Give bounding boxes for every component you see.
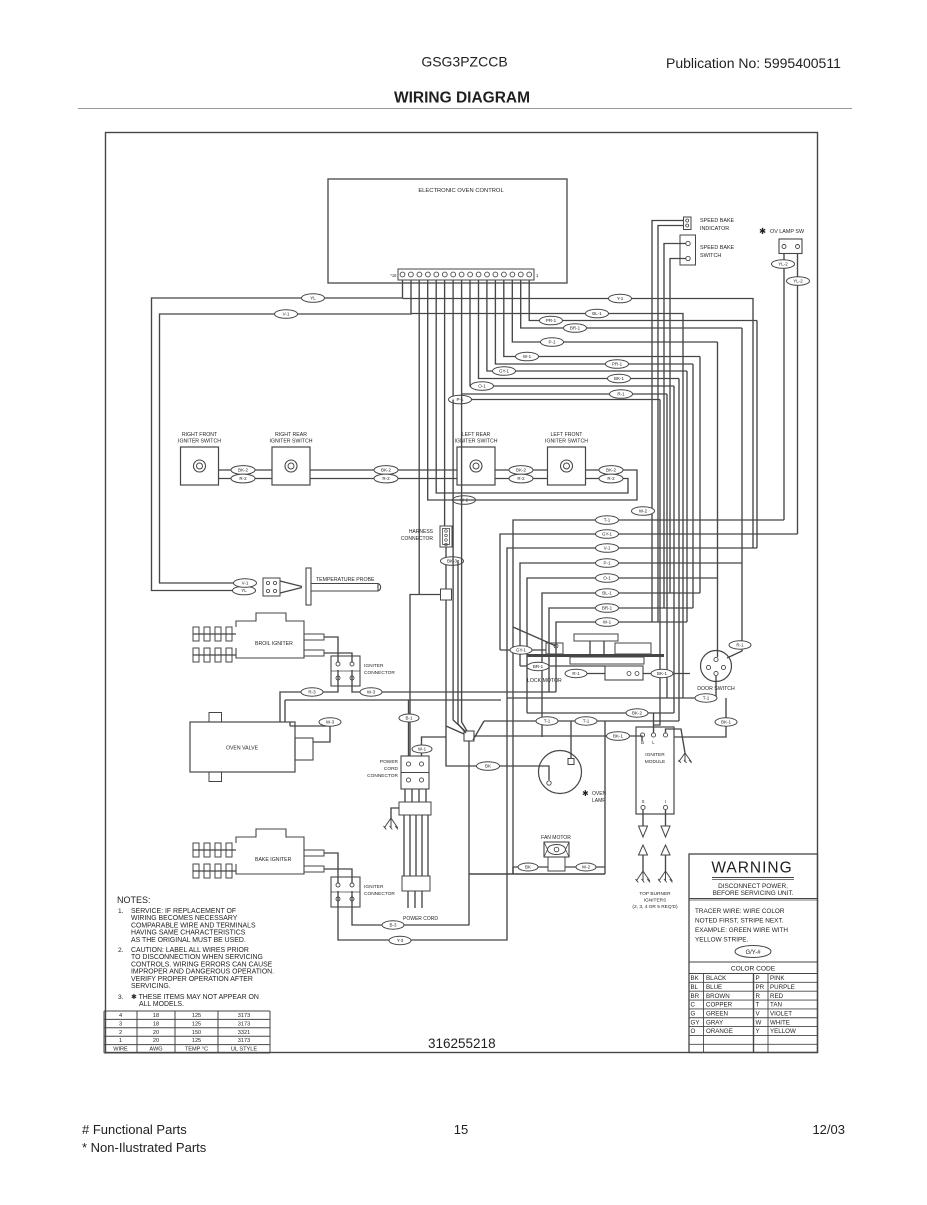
svg-text:SPEED BAKE: SPEED BAKE (700, 218, 735, 224)
wire star junction to igniter module (474, 736, 642, 741)
wire label T-1 (596, 516, 619, 525)
svg-text:GY-1: GY-1 (499, 369, 510, 374)
svg-text:TAN: TAN (770, 1002, 782, 1009)
broil igniter (193, 613, 324, 662)
svg-text:POWER: POWER (380, 759, 399, 765)
svg-text:YL: YL (241, 588, 247, 593)
svg-text:YL-2: YL-2 (778, 262, 788, 267)
wire oven valve top (284, 700, 286, 722)
wire label BR-1 (527, 662, 549, 670)
wire junction to power cord branch (410, 595, 441, 757)
wire label O-1 (471, 382, 494, 391)
svg-text:✱: ✱ (759, 226, 766, 236)
svg-text:SWITCH: SWITCH (700, 253, 721, 259)
wire label R-3 (301, 688, 323, 696)
wire ladder row W-1 y=622 (556, 622, 687, 692)
svg-text:BROWN: BROWN (706, 993, 730, 1000)
wire label BL-1 (596, 589, 619, 598)
wire label Y-3 (389, 936, 411, 944)
svg-text:W-2: W-2 (639, 509, 648, 514)
svg-text:GY-1: GY-1 (516, 648, 527, 653)
svg-text:BK: BK (485, 764, 491, 769)
left front igniter switch (545, 432, 588, 485)
svg-text:125: 125 (192, 1038, 201, 1044)
wire T-1 row at lamp (484, 720, 571, 722)
svg-text:CONNECTOR: CONNECTOR (364, 891, 395, 897)
tracer example oval (735, 946, 771, 958)
oval BK-1 below door switch (674, 698, 726, 737)
svg-text:W-1: W-1 (523, 354, 532, 359)
svg-text:V-1: V-1 (242, 581, 249, 586)
wire label P-1 (596, 559, 619, 568)
wire label Y-1 (609, 294, 632, 303)
svg-text:CONTROLS. WIRING ERRORS C: CONTROLS. WIRING ERRORS CAN CAUSE (131, 961, 273, 968)
wire EOC terminal drop row y=399.5 (453, 280, 660, 400)
wire OV lamp switch left to ladder (783, 254, 785, 521)
svg-text:BLACK: BLACK (706, 975, 727, 982)
svg-text:BR-1: BR-1 (533, 664, 544, 669)
wire from speed bake switch pin 2 (670, 259, 686, 594)
svg-text:VIOLET: VIOLET (770, 1011, 792, 1018)
wire label T-1 (575, 717, 597, 725)
svg-text:G: G (691, 1011, 696, 1018)
svg-text:LEFT REAR: LEFT REAR (462, 432, 491, 438)
wire ladder row GY-1 y=534 (500, 534, 798, 650)
ground at igniter module (679, 753, 692, 763)
svg-text:P-1: P-1 (548, 340, 556, 345)
junction connector square (441, 589, 452, 600)
svg-text:W-3: W-3 (367, 690, 376, 695)
wire label W-1 (516, 352, 539, 361)
svg-text:BK: BK (525, 865, 531, 870)
wire label BL-1 (586, 309, 609, 318)
star junction node (464, 731, 474, 741)
spark gap S (636, 810, 651, 883)
wire label PR-1 (606, 360, 629, 369)
svg-text:INDICATOR: INDICATOR (700, 226, 729, 232)
lock motor body (605, 666, 643, 680)
svg-text:BK-2: BK-2 (238, 468, 249, 473)
svg-text:B-3: B-3 (389, 923, 397, 928)
wire label YL (302, 294, 325, 303)
svg-text:P-1: P-1 (456, 397, 464, 402)
svg-text:316255218: 316255218 (428, 1036, 496, 1051)
svg-text:IGNITER SWITCH: IGNITER SWITCH (545, 439, 588, 445)
door switch (701, 651, 732, 682)
wire EOC terminal drop row y=378.5 (479, 280, 680, 379)
svg-text:R-2: R-2 (239, 476, 247, 481)
svg-text:V-1: V-1 (283, 312, 290, 317)
wire label V-1 (275, 310, 298, 319)
wire label W-2 (576, 863, 596, 871)
wire label BK (518, 863, 538, 871)
svg-text:IGNITER: IGNITER (364, 663, 384, 669)
svg-text:HAVING SAME CHARACTERISTICS: HAVING SAME CHARACTERISTICS (131, 930, 246, 937)
svg-text:BROIL IGNITER: BROIL IGNITER (255, 641, 293, 647)
wire ladder row BR-1 y=608 (549, 608, 693, 692)
wire label BK-1 (715, 718, 737, 726)
svg-text:LEFT FRONT: LEFT FRONT (551, 432, 584, 438)
svg-text:4: 4 (119, 1013, 122, 1019)
wire branch junction to star (446, 726, 464, 734)
svg-text:BAKE IGNITER: BAKE IGNITER (255, 857, 292, 863)
oven valve (190, 722, 295, 772)
svg-text:TEMPERATURE PROBE: TEMPERATURE PROBE (316, 577, 375, 583)
svg-text:2: 2 (119, 1030, 122, 1036)
svg-text:T-1: T-1 (544, 719, 551, 724)
wire label YL (233, 586, 256, 595)
wire ladder row V-1 y=548 (507, 548, 757, 874)
wire label B-3 (382, 921, 404, 929)
svg-text:12/03: 12/03 (812, 1122, 845, 1137)
ground at power cord (391, 808, 399, 818)
svg-text:PR: PR (756, 984, 765, 991)
svg-text:IMPROPER AND DANGEROUS OPER: IMPROPER AND DANGEROUS OPERATION. (131, 969, 274, 976)
svg-text:R: R (756, 993, 761, 1000)
svg-text:BK-1: BK-1 (721, 720, 732, 725)
svg-text:GSG3PZCCB: GSG3PZCCB (421, 54, 507, 70)
wire label BK-1 (608, 374, 631, 383)
EOC terminal strip (398, 269, 534, 280)
wire label T-1 (536, 717, 558, 725)
svg-text:IGNITER: IGNITER (645, 752, 665, 758)
svg-text:WIRE: WIRE (113, 1047, 128, 1053)
svg-text:R-1: R-1 (736, 643, 744, 648)
svg-text:CAUTION: LABEL ALL WIRES: CAUTION: LABEL ALL WIRES PRIOR (131, 947, 249, 954)
wire junction down to oven lamp row (446, 600, 549, 780)
wire module right pin to ground (666, 729, 686, 753)
svg-text:SERVICING.: SERVICING. (131, 983, 171, 990)
svg-text:BL-1: BL-1 (592, 311, 602, 316)
svg-text:BK-1: BK-1 (614, 376, 625, 381)
wire label V-1 (596, 544, 619, 553)
lock motor base bar (527, 654, 664, 657)
svg-text:WIRING DIAGRAM: WIRING DIAGRAM (394, 90, 530, 107)
warning box (689, 854, 818, 1053)
wire label V-1 (234, 579, 257, 588)
svg-text:Publication No: 5995400511: Publication No: 5995400511 (666, 55, 841, 71)
wire label W-1 (412, 745, 432, 753)
title underline (78, 108, 852, 110)
svg-text:* Non-Ilustrated Parts: * Non-Ilustrated Parts (82, 1140, 207, 1155)
wire label R-2 (599, 474, 623, 483)
main schematic border frame (106, 133, 818, 1053)
wire label YL-2 (772, 260, 795, 269)
wire label R-2 (231, 474, 255, 483)
wire ladder row T-1 y=520 (513, 520, 784, 874)
wire label BK-2 (599, 466, 623, 475)
wire EOC terminal drop row y=342.0 (512, 280, 717, 342)
svg-text:PINK: PINK (770, 975, 785, 982)
wire EOC pin15 to temperature probe (160, 280, 412, 583)
wire label R-2 (374, 474, 398, 483)
wire label GY-1 (493, 367, 516, 376)
svg-text:DISCONNECT POWER,: DISCONNECT POWER, (718, 883, 788, 890)
bottom loop wires (338, 874, 507, 940)
svg-text:C: C (691, 1002, 696, 1009)
svg-text:GY-1: GY-1 (602, 532, 613, 537)
svg-text:TOP BURNER: TOP BURNER (639, 891, 671, 897)
wire ladder row BL-1 y=593 (542, 593, 700, 737)
svg-text:RED: RED (770, 993, 784, 1000)
svg-text:TEMP °C: TEMP °C (185, 1047, 208, 1053)
svg-text:HARNESS: HARNESS (409, 529, 434, 535)
svg-text:BL-1: BL-1 (602, 591, 612, 596)
svg-text:COLOR CODE: COLOR CODE (731, 966, 776, 973)
svg-text:IGNITERS: IGNITERS (644, 898, 667, 904)
svg-text:PR-1: PR-1 (612, 362, 623, 367)
svg-text:1.: 1. (118, 908, 124, 915)
svg-text:T-1: T-1 (604, 518, 611, 523)
svg-text:W-1: W-1 (418, 747, 427, 752)
svg-text:YELLOW: YELLOW (770, 1028, 796, 1035)
svg-text:20: 20 (153, 1038, 159, 1044)
svg-text:G/Y-#: G/Y-# (745, 950, 761, 956)
svg-text:15: 15 (454, 1122, 468, 1137)
svg-text:R-1: R-1 (617, 392, 625, 397)
wire label BK-2 (626, 709, 648, 717)
svg-text:BR-1: BR-1 (602, 606, 613, 611)
svg-text:OV LAMP SW: OV LAMP SW (770, 229, 805, 235)
svg-text:1: 1 (119, 1038, 122, 1044)
wire door switch R-1 (727, 563, 742, 658)
wire label R-2 (509, 474, 533, 483)
svg-text:O-1: O-1 (603, 576, 611, 581)
color code table (689, 961, 818, 963)
wire label GY-1 (596, 530, 619, 539)
svg-text:CONNECTOR: CONNECTOR (401, 536, 434, 542)
svg-text:BK-3: BK-3 (447, 559, 458, 564)
svg-text:150: 150 (192, 1030, 201, 1036)
svg-text:O: O (691, 1028, 696, 1035)
svg-text:20: 20 (153, 1030, 159, 1036)
wire label BK-2 (509, 466, 533, 475)
wire igniter switch chain R-2 (219, 478, 273, 480)
svg-text:W-3: W-3 (326, 720, 335, 725)
wire star to oven lamp T-1 row (473, 721, 484, 740)
wire label B-1 (399, 714, 419, 722)
wire label BK-1 (651, 669, 673, 677)
temperature probe body (280, 581, 302, 587)
svg-text:GRAY: GRAY (706, 1019, 723, 1026)
speed bake indicator (684, 217, 692, 230)
wire label BK-2 (231, 466, 255, 475)
svg-text:MODULE: MODULE (645, 759, 666, 765)
lock motor wires (500, 649, 546, 651)
wire igniter switch chain BK-2 (219, 469, 273, 471)
harness connector (440, 526, 452, 547)
right rear igniter switch (270, 432, 313, 485)
wires into power cord connector (408, 722, 410, 756)
svg-text:R-2: R-2 (517, 476, 525, 481)
wire EOC terminal drop row y=328.0 (521, 280, 742, 328)
fan motor platform (470, 873, 606, 875)
wire EOC drop to junction (418, 280, 420, 594)
svg-text:PURPLE: PURPLE (770, 984, 795, 991)
svg-text:125: 125 (192, 1021, 201, 1027)
wire gauge table (104, 1011, 270, 1053)
wire door switch T-1 bottom (507, 676, 716, 698)
svg-text:T: T (756, 1002, 760, 1009)
svg-text:*16: *16 (390, 273, 397, 278)
svg-text:AS THE ORIGINAL MUST BE U: AS THE ORIGINAL MUST BE USED. (131, 937, 246, 944)
svg-text:3173: 3173 (238, 1038, 250, 1044)
wire label W-2 (453, 496, 476, 505)
svg-text:SPEED BAKE: SPEED BAKE (700, 245, 735, 251)
igniter module (636, 727, 674, 814)
svg-text:BLUE: BLUE (706, 984, 722, 991)
wire label R-1 (729, 641, 751, 649)
svg-text:3321: 3321 (238, 1030, 250, 1036)
fan motor wires (513, 866, 548, 868)
power cord wires (403, 815, 405, 876)
wire label PR-1 (540, 316, 563, 325)
svg-text:NOTES:: NOTES: (117, 895, 151, 905)
svg-text:125: 125 (192, 1013, 201, 1019)
left rear igniter switch (455, 432, 498, 485)
igniter connector (broil) (331, 656, 395, 686)
wires fanning into star junction (453, 400, 465, 732)
svg-text:BR-1: BR-1 (570, 326, 581, 331)
wire EOC terminal drop row y=320.5 (529, 280, 757, 321)
svg-text:GREEN: GREEN (706, 1011, 728, 1018)
svg-text:V-1: V-1 (604, 546, 611, 551)
wire EOC terminal drop row y=394.0 (462, 280, 667, 394)
svg-text:PR-1: PR-1 (546, 318, 557, 323)
wire from speed bake indicator pin 2 (658, 226, 684, 623)
speed bake switch (680, 235, 696, 265)
svg-text:R-1: R-1 (572, 671, 580, 676)
svg-text:SERVICE: IF REPLACEMENT O: SERVICE: IF REPLACEMENT OF (131, 908, 236, 915)
svg-text:R-2: R-2 (382, 476, 390, 481)
lock motor lever (513, 627, 556, 646)
wire label O-1 (596, 574, 619, 583)
svg-text:I: I (665, 799, 666, 804)
right front igniter switch (178, 432, 221, 485)
wire EOC terminal drop row y=371.0 (487, 280, 687, 371)
wires from broil connector down (280, 670, 338, 722)
wire from speed bake switch pin 1 (664, 244, 686, 609)
svg-text:3.: 3. (118, 994, 124, 1001)
wire star junction down to igniter connector loop (468, 741, 470, 925)
svg-text:BK-2: BK-2 (516, 468, 527, 473)
wire label R-1 (565, 669, 587, 677)
svg-text:P-1: P-1 (603, 561, 611, 566)
svg-text:(2, 3, 4 OR 5 REQ'D): (2, 3, 4 OR 5 REQ'D) (632, 904, 678, 910)
wires broil igniter to connector (324, 637, 338, 662)
svg-text:B-1: B-1 (405, 716, 413, 721)
wire vertical right bundle (756, 321, 758, 549)
wire label W-1 (596, 618, 619, 627)
svg-text:18: 18 (153, 1021, 159, 1027)
wire label YL-2 (787, 277, 810, 286)
wire oven valve right (290, 726, 330, 742)
temperature probe connector (263, 578, 280, 596)
svg-text:COMPARABLE WIRE AND TERMINA: COMPARABLE WIRE AND TERMINALS (131, 922, 256, 929)
svg-text:ELECTRONIC OVEN CONTROL: ELECTRONIC OVEN CONTROL (418, 188, 504, 194)
svg-text:GY: GY (691, 1019, 700, 1026)
wire from speed bake indicator pin 1 (652, 221, 684, 623)
svg-text:Y-3: Y-3 (397, 938, 404, 943)
wire OV lamp switch right to ladder (797, 254, 799, 535)
svg-text:WIRING BECOMES NECESSARY: WIRING BECOMES NECESSARY (131, 915, 238, 922)
svg-text:2.: 2. (118, 947, 124, 954)
wire label P-1 (449, 395, 472, 404)
wire label GY-1 (510, 646, 532, 654)
svg-text:3173: 3173 (238, 1013, 250, 1019)
svg-text:RIGHT FRONT: RIGHT FRONT (182, 432, 218, 438)
wire harness connector down (445, 547, 447, 589)
svg-text:IGNITER: IGNITER (364, 884, 384, 890)
wire label BK (477, 762, 500, 771)
wire label P-1 (541, 338, 564, 347)
svg-text:18: 18 (153, 1013, 159, 1019)
svg-text:ALL MODELS.: ALL MODELS. (139, 1001, 184, 1008)
wire label T-1 (695, 694, 717, 702)
svg-text:O-1: O-1 (478, 384, 486, 389)
bake igniter (193, 829, 324, 878)
spark gap I (658, 810, 673, 883)
svg-text:Y: Y (756, 1028, 760, 1035)
svg-text:BK-2: BK-2 (632, 711, 643, 716)
svg-text:CONNECTOR: CONNECTOR (367, 773, 398, 779)
svg-text:IGNITER SWITCH: IGNITER SWITCH (178, 439, 221, 445)
svg-text:WHITE: WHITE (770, 1019, 790, 1026)
svg-text:3173: 3173 (238, 1021, 250, 1027)
svg-text:OVEN VALVE: OVEN VALVE (226, 746, 259, 752)
svg-text:FAN MOTOR: FAN MOTOR (541, 835, 571, 841)
svg-text:YL-2: YL-2 (793, 279, 803, 284)
wire module L pin (527, 712, 674, 714)
svg-text:W-2: W-2 (582, 865, 591, 870)
svg-text:RIGHT REAR: RIGHT REAR (275, 432, 307, 438)
wire Y-1 EOC row (403, 299, 754, 549)
svg-text:BK: BK (691, 975, 700, 982)
svg-text:BR: BR (691, 993, 700, 1000)
svg-text:CONNECTOR: CONNECTOR (364, 670, 395, 676)
svg-text:W-1: W-1 (603, 620, 612, 625)
wire label R-1 (610, 390, 633, 399)
svg-text:✱: ✱ (582, 789, 589, 798)
svg-text:LOCK MOTOR: LOCK MOTOR (527, 678, 562, 684)
electronic oven control (328, 179, 567, 283)
oven lamp (539, 751, 582, 794)
strain relief (399, 802, 431, 815)
svg-text:COPPER: COPPER (706, 1002, 733, 1009)
lock motor assembly (513, 627, 664, 684)
wire oven lamp top (570, 721, 572, 759)
wire label BR-1 (596, 604, 619, 613)
svg-text:# Functional Parts: # Functional Parts (82, 1122, 187, 1137)
svg-text:W: W (756, 1019, 762, 1026)
svg-text:3: 3 (119, 1021, 122, 1027)
svg-text:TO DISCONNECTION WHEN SERVI: TO DISCONNECTION WHEN SERVICING (131, 954, 263, 961)
wire label BK-2 (374, 466, 398, 475)
svg-text:EXAMPLE: GREEN WIRE WIT: EXAMPLE: GREEN WIRE WITH (695, 927, 788, 934)
svg-text:BL: BL (691, 984, 699, 991)
svg-text:POWER CORD: POWER CORD (403, 916, 438, 922)
svg-text:S: S (642, 799, 645, 804)
svg-text:CORD: CORD (384, 766, 399, 772)
wire label W-2 (632, 507, 655, 516)
svg-text:YL: YL (310, 296, 316, 301)
svg-text:BK-1: BK-1 (613, 734, 624, 739)
wire EOC terminal drop row y=386.0 (470, 280, 674, 386)
svg-text:AWG: AWG (149, 1047, 162, 1053)
svg-text:BEFORE SERVICING UNIT.: BEFORE SERVICING UNIT. (713, 890, 794, 897)
wires bake igniter to connector (324, 853, 338, 883)
wire EOC terminal drop row y=356.5 (504, 280, 700, 357)
